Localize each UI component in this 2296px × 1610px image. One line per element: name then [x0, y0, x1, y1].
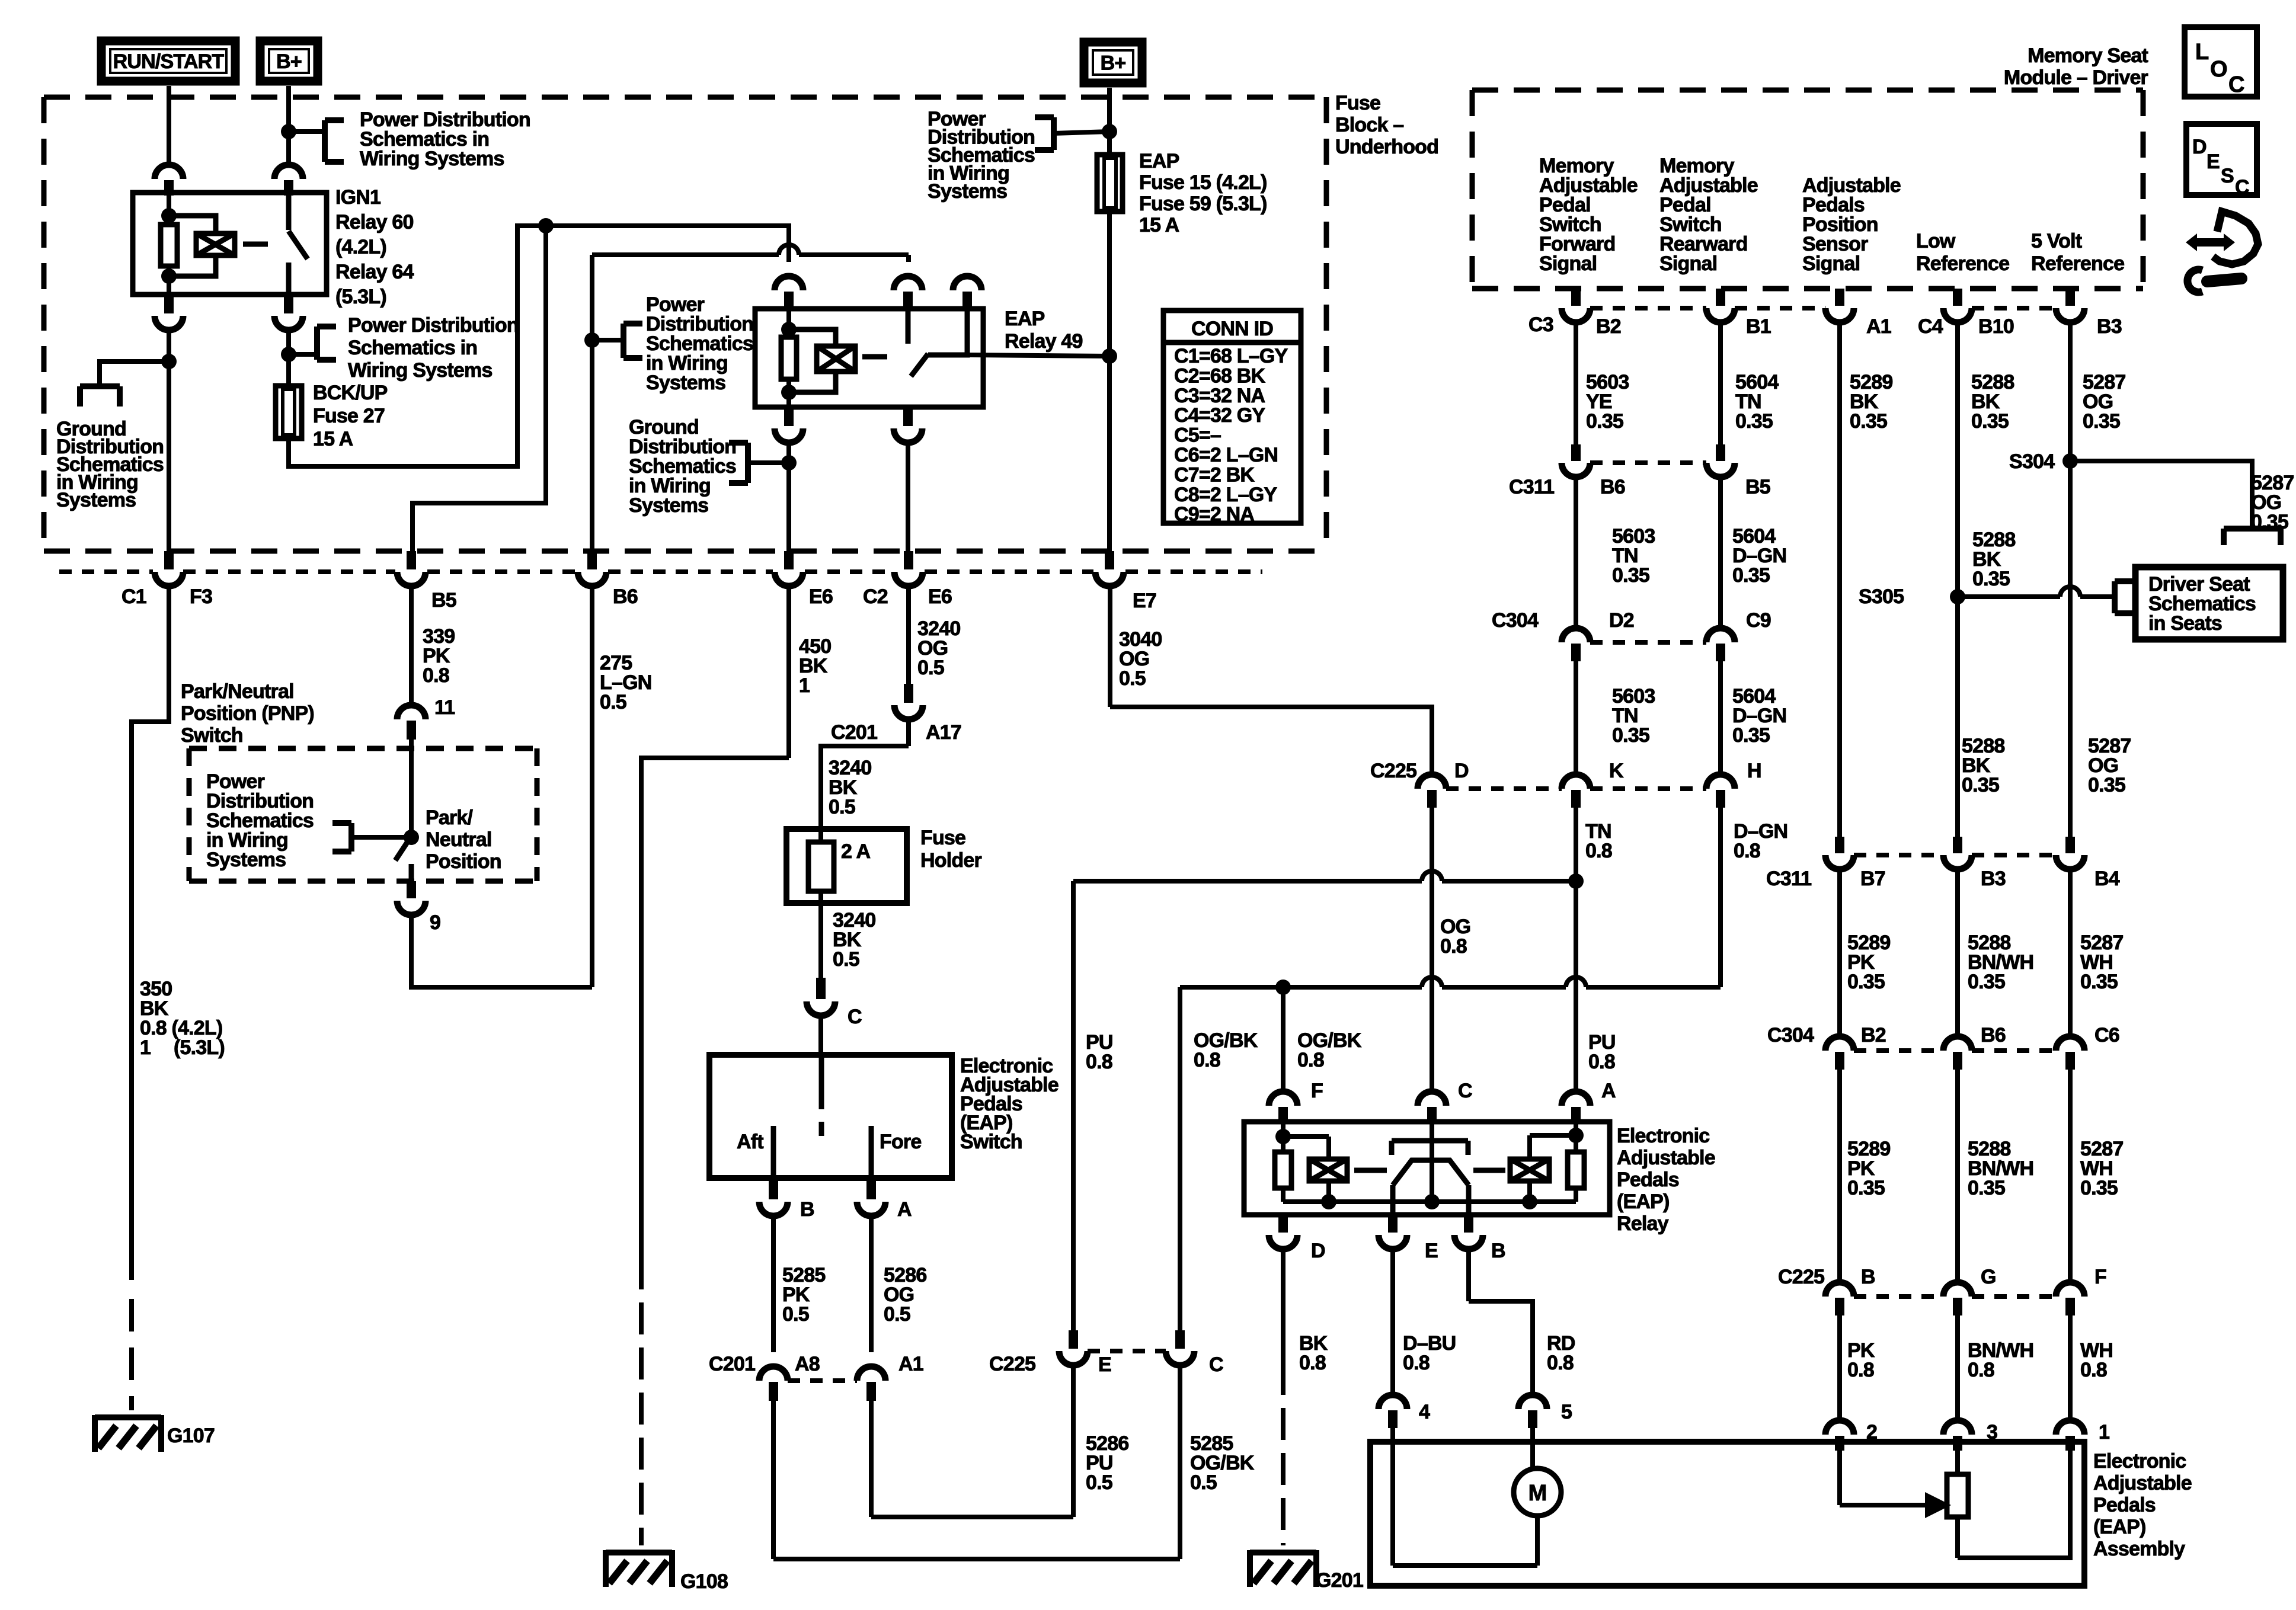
svg-text:B: B — [1861, 1266, 1875, 1288]
svg-text:B5: B5 — [1745, 476, 1770, 498]
svg-text:C201: C201 — [709, 1353, 755, 1375]
svg-text:3: 3 — [1987, 1421, 1997, 1443]
svg-text:O: O — [2210, 57, 2227, 82]
svg-text:L: L — [2195, 40, 2209, 65]
svg-text:0.35: 0.35 — [1735, 410, 1773, 433]
svg-text:E6: E6 — [928, 585, 952, 608]
svg-text:Fuse 15 (4.2L): Fuse 15 (4.2L) — [1139, 171, 1267, 194]
svg-text:Memory Seat: Memory Seat — [2028, 44, 2148, 67]
svg-text:Systems: Systems — [629, 494, 708, 517]
svg-text:Switch: Switch — [960, 1131, 1022, 1153]
svg-text:B7: B7 — [1860, 868, 1885, 890]
svg-text:Pedals: Pedals — [1617, 1169, 1679, 1191]
svg-text:Park/: Park/ — [426, 806, 474, 829]
svg-text:0.8: 0.8 — [2080, 1359, 2107, 1381]
svg-text:Park/Neutral: Park/Neutral — [181, 680, 294, 703]
svg-text:Wiring Systems: Wiring Systems — [348, 359, 493, 382]
svg-text:A: A — [1601, 1080, 1616, 1102]
svg-text:Fuse 59 (5.3L): Fuse 59 (5.3L) — [1139, 193, 1267, 215]
svg-text:1: 1 — [140, 1036, 151, 1059]
svg-text:0.8: 0.8 — [1194, 1049, 1220, 1071]
svg-text:S305: S305 — [1859, 585, 1904, 608]
svg-text:Relay 49: Relay 49 — [1005, 330, 1083, 353]
svg-text:0.35: 0.35 — [1732, 564, 1770, 587]
svg-text:B10: B10 — [1978, 315, 2014, 338]
svg-text:(5.3L): (5.3L) — [174, 1036, 225, 1059]
svg-text:0.35: 0.35 — [2083, 410, 2120, 433]
svg-text:0.8: 0.8 — [1588, 1051, 1615, 1073]
svg-text:B1: B1 — [1746, 315, 1771, 338]
svg-text:C225: C225 — [989, 1353, 1035, 1375]
svg-text:Signal: Signal — [1539, 252, 1597, 275]
svg-text:B: B — [1491, 1240, 1505, 1262]
svg-text:C9=2 NA: C9=2 NA — [1174, 503, 1254, 526]
svg-text:K: K — [1609, 760, 1624, 782]
svg-text:Module – Driver: Module – Driver — [2004, 66, 2148, 89]
svg-text:C: C — [1458, 1080, 1472, 1102]
svg-text:C311: C311 — [1766, 868, 1811, 890]
svg-text:B: B — [800, 1198, 814, 1221]
svg-text:B+: B+ — [1101, 52, 1126, 75]
svg-text:0.5: 0.5 — [1190, 1471, 1217, 1494]
svg-text:Relay 64: Relay 64 — [335, 261, 414, 283]
svg-text:(EAP): (EAP) — [2093, 1516, 2146, 1538]
svg-text:Fore: Fore — [880, 1131, 921, 1153]
svg-text:M: M — [1528, 1481, 1547, 1506]
svg-text:0.35: 0.35 — [1847, 971, 1885, 993]
svg-text:Electronic: Electronic — [2093, 1450, 2186, 1473]
svg-text:BCK/UP: BCK/UP — [313, 382, 388, 404]
svg-text:0.35: 0.35 — [1850, 410, 1887, 433]
svg-text:Relay: Relay — [1617, 1212, 1669, 1235]
svg-text:0.35: 0.35 — [1847, 1177, 1885, 1199]
svg-text:Assembly: Assembly — [2093, 1538, 2185, 1560]
svg-text:Neutral: Neutral — [426, 828, 492, 851]
svg-text:C: C — [2235, 176, 2249, 199]
svg-text:0.35: 0.35 — [2088, 774, 2125, 796]
svg-text:0.35: 0.35 — [1962, 774, 1999, 796]
svg-text:G108: G108 — [680, 1570, 728, 1593]
svg-text:B2: B2 — [1861, 1024, 1886, 1046]
svg-text:Fuse: Fuse — [1335, 92, 1380, 114]
svg-text:G107: G107 — [167, 1425, 215, 1447]
svg-text:B6: B6 — [613, 585, 638, 608]
svg-text:Schematics in: Schematics in — [348, 337, 477, 359]
svg-text:E7: E7 — [1133, 590, 1156, 612]
svg-text:in Seats: in Seats — [2148, 612, 2222, 635]
svg-text:C4: C4 — [1918, 315, 1943, 338]
svg-text:B+: B+ — [276, 50, 302, 73]
svg-text:CONN ID: CONN ID — [1191, 318, 1273, 340]
svg-text:C8=2 L–GY: C8=2 L–GY — [1174, 484, 1277, 506]
svg-text:Low: Low — [1916, 230, 1956, 252]
svg-text:B4: B4 — [2094, 868, 2120, 890]
svg-text:E: E — [1098, 1353, 1111, 1376]
svg-text:Switch: Switch — [181, 724, 243, 747]
svg-text:0.35: 0.35 — [1968, 971, 2005, 993]
svg-text:C225: C225 — [1778, 1266, 1824, 1288]
svg-text:2: 2 — [1866, 1421, 1877, 1443]
svg-text:0.35: 0.35 — [1586, 410, 1623, 433]
svg-text:Block –: Block – — [1335, 114, 1403, 136]
svg-text:C: C — [1209, 1353, 1223, 1376]
svg-text:D: D — [1454, 760, 1469, 782]
svg-text:Position: Position — [426, 850, 501, 873]
svg-text:C2: C2 — [863, 585, 888, 608]
svg-text:G201: G201 — [1316, 1569, 1363, 1592]
svg-text:1: 1 — [799, 674, 810, 697]
svg-text:Relay 60: Relay 60 — [335, 211, 414, 233]
svg-text:0.8: 0.8 — [1547, 1352, 1574, 1374]
svg-text:C3=32 NA: C3=32 NA — [1174, 385, 1265, 407]
svg-text:Adjustable: Adjustable — [2093, 1472, 2192, 1494]
svg-text:G: G — [1981, 1266, 1996, 1288]
svg-text:Systems: Systems — [56, 489, 136, 511]
svg-text:0.5: 0.5 — [917, 657, 944, 679]
svg-text:0.35: 0.35 — [1972, 568, 2010, 590]
svg-text:C6=2 L–GN: C6=2 L–GN — [1174, 444, 1278, 466]
svg-text:0.5: 0.5 — [1119, 667, 1146, 690]
svg-text:Wiring Systems: Wiring Systems — [360, 148, 504, 170]
svg-text:Electronic: Electronic — [1617, 1125, 1709, 1147]
svg-text:Power Distribution: Power Distribution — [348, 314, 519, 337]
svg-text:Reference: Reference — [1916, 252, 2009, 275]
svg-text:B6: B6 — [1981, 1024, 2006, 1046]
svg-text:15 A: 15 A — [313, 428, 353, 450]
svg-text:A: A — [897, 1198, 912, 1221]
svg-text:Signal: Signal — [1802, 252, 1860, 275]
svg-text:0.5: 0.5 — [833, 948, 859, 971]
svg-text:0.8: 0.8 — [423, 664, 449, 687]
svg-text:0.35: 0.35 — [2251, 511, 2288, 533]
svg-text:IGN1: IGN1 — [335, 186, 380, 209]
svg-text:0.8: 0.8 — [1440, 935, 1467, 958]
svg-text:Pedals: Pedals — [2093, 1494, 2156, 1516]
svg-text:0.35: 0.35 — [1612, 724, 1649, 747]
svg-text:Adjustable: Adjustable — [1617, 1147, 1715, 1169]
svg-text:9: 9 — [430, 911, 440, 934]
svg-text:0.8: 0.8 — [1297, 1049, 1324, 1071]
svg-text:B6: B6 — [1600, 476, 1625, 498]
svg-text:2 A: 2 A — [841, 840, 870, 863]
svg-text:(5.3L): (5.3L) — [335, 286, 386, 308]
svg-text:C5=–: C5=– — [1174, 424, 1221, 447]
svg-text:B3: B3 — [2097, 315, 2122, 338]
svg-text:C9: C9 — [1746, 609, 1771, 632]
svg-text:C1: C1 — [121, 585, 146, 608]
svg-text:D: D — [2192, 136, 2207, 158]
svg-text:EAP: EAP — [1005, 308, 1045, 330]
svg-text:0.8: 0.8 — [1585, 840, 1612, 862]
svg-text:B5: B5 — [431, 589, 456, 612]
svg-text:F: F — [1311, 1080, 1323, 1102]
svg-text:RUN/START: RUN/START — [113, 50, 225, 73]
svg-text:C7=2 BK: C7=2 BK — [1174, 463, 1255, 486]
svg-text:C6: C6 — [2094, 1024, 2119, 1046]
svg-text:Systems: Systems — [646, 372, 725, 394]
svg-text:S304: S304 — [2009, 450, 2055, 473]
svg-text:0.35: 0.35 — [1971, 410, 2009, 433]
svg-text:C311: C311 — [1509, 476, 1554, 498]
svg-text:F3: F3 — [190, 585, 212, 608]
svg-text:D: D — [1311, 1240, 1325, 1262]
svg-text:B2: B2 — [1596, 315, 1621, 338]
svg-text:0.8: 0.8 — [1403, 1352, 1430, 1374]
svg-text:C1=68 L–GY: C1=68 L–GY — [1174, 345, 1288, 367]
svg-text:Position (PNP): Position (PNP) — [181, 702, 314, 725]
svg-text:Signal: Signal — [1659, 252, 1717, 275]
svg-text:E6: E6 — [809, 585, 833, 608]
svg-text:Underhood: Underhood — [1335, 136, 1438, 158]
svg-text:S: S — [2221, 165, 2234, 187]
svg-text:5 Volt: 5 Volt — [2031, 230, 2082, 252]
svg-text:0.35: 0.35 — [1968, 1177, 2005, 1199]
svg-text:C201: C201 — [831, 721, 877, 744]
svg-text:C3: C3 — [1528, 313, 1553, 336]
svg-text:B3: B3 — [1981, 868, 2006, 890]
svg-text:EAP: EAP — [1139, 150, 1179, 172]
svg-text:Fuse: Fuse — [920, 827, 965, 849]
svg-text:C225: C225 — [1370, 760, 1416, 782]
svg-text:0.5: 0.5 — [829, 796, 855, 818]
svg-text:0.8: 0.8 — [1086, 1051, 1112, 1073]
svg-text:4: 4 — [1419, 1401, 1430, 1423]
svg-text:5: 5 — [1561, 1401, 1572, 1423]
svg-text:C304: C304 — [1492, 609, 1539, 632]
svg-text:Reference: Reference — [2031, 252, 2124, 275]
svg-text:A17: A17 — [926, 721, 961, 744]
svg-text:0.5: 0.5 — [600, 691, 626, 713]
svg-text:0.8: 0.8 — [1847, 1359, 1874, 1381]
svg-text:C: C — [2228, 72, 2244, 97]
svg-text:1: 1 — [2099, 1421, 2109, 1443]
svg-text:0.35: 0.35 — [1732, 724, 1770, 747]
svg-text:(4.2L): (4.2L) — [335, 236, 386, 258]
svg-text:0.5: 0.5 — [1086, 1471, 1112, 1494]
svg-text:0.8: 0.8 — [1734, 840, 1760, 862]
svg-text:15 A: 15 A — [1139, 214, 1179, 236]
svg-text:0.35: 0.35 — [2080, 1177, 2118, 1199]
svg-text:Fuse 27: Fuse 27 — [313, 405, 385, 427]
svg-text:Systems: Systems — [928, 180, 1007, 203]
svg-text:Aft: Aft — [737, 1131, 763, 1153]
svg-text:0.5: 0.5 — [884, 1303, 910, 1326]
svg-text:H: H — [1747, 760, 1761, 782]
svg-text:A1: A1 — [1866, 315, 1891, 338]
svg-text:A8: A8 — [795, 1353, 820, 1375]
svg-text:A1: A1 — [898, 1353, 923, 1375]
svg-text:C4=32 GY: C4=32 GY — [1174, 404, 1265, 427]
svg-text:Systems: Systems — [206, 849, 286, 871]
svg-text:E: E — [1425, 1240, 1438, 1262]
svg-text:F: F — [2094, 1266, 2106, 1288]
svg-text:0.35: 0.35 — [1612, 564, 1649, 587]
svg-text:(EAP): (EAP) — [1617, 1190, 1670, 1213]
svg-text:E: E — [2207, 151, 2220, 173]
svg-text:0.5: 0.5 — [782, 1303, 809, 1326]
svg-text:C2=68 BK: C2=68 BK — [1174, 364, 1266, 387]
svg-text:0.35: 0.35 — [2080, 971, 2118, 993]
svg-text:0.8: 0.8 — [1968, 1359, 1994, 1381]
svg-text:C: C — [848, 1006, 862, 1028]
svg-text:11: 11 — [434, 696, 455, 719]
svg-text:Holder: Holder — [920, 849, 981, 872]
svg-text:C304: C304 — [1767, 1024, 1814, 1046]
svg-text:0.8: 0.8 — [1299, 1352, 1326, 1374]
svg-text:D2: D2 — [1609, 609, 1634, 632]
